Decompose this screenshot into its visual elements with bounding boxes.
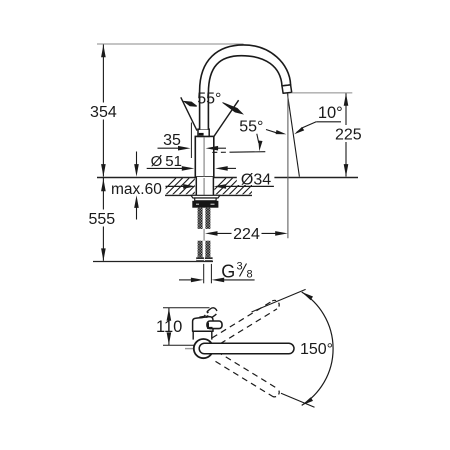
swivel dashed arm lower (217, 351, 277, 388)
body section through countertop (34mm) (196, 177, 213, 195)
extension line for 35 (190, 123, 192, 159)
plan lever knob curl (205, 306, 218, 319)
body centerline visible inside (203, 138, 205, 177)
spout outlet cap (mousseur) (282, 85, 292, 93)
plan lever dashed shaft (203, 312, 209, 318)
svg-text:110: 110 (156, 318, 182, 336)
dimension max.60 (counter thickness) (136, 152, 138, 166)
reference line at spout outlet level (292, 92, 353, 94)
svg-text:555: 555 (88, 211, 115, 228)
spout outlet axis vertical line (287, 94, 289, 239)
swivel boundary line lower (281, 393, 315, 407)
svg-text:Ø 51: Ø 51 (151, 153, 182, 170)
bottom reference line (hose ends) (93, 261, 213, 263)
faucet body centerline (203, 132, 205, 195)
spout tube (high C-arc) (200, 45, 291, 129)
dimension 224 (spout reach) (205, 231, 218, 236)
swivel arc 150° (302, 292, 333, 405)
countertop top surface line (97, 177, 358, 179)
supply hose right (lower segment) (205, 241, 210, 258)
centerline in hose break gap (203, 229, 205, 241)
svg-text:G: G (221, 261, 235, 281)
plan side stub (207, 321, 222, 329)
plan neck lines (192, 331, 194, 339)
top reference line (faucet max height) (97, 43, 244, 45)
label G 3/8 (thread size) (203, 264, 205, 283)
lever open position line (214, 100, 239, 136)
svg-text:10°: 10° (318, 104, 343, 122)
plan centerline (185, 348, 199, 350)
dashed reference line at body (212, 151, 231, 153)
svg-text:3: 3 (237, 261, 243, 273)
faucet body (195, 136, 214, 177)
collar / cartridge cap (198, 129, 209, 136)
hose end fitting left (196, 257, 204, 262)
dimension 555 (counter to hose end) (102, 178, 104, 210)
lever closed position line (181, 97, 197, 130)
block top dark ticks (200, 316, 204, 319)
hose end fitting right (205, 257, 213, 262)
svg-text:354: 354 (90, 104, 117, 121)
svg-text:224: 224 (233, 226, 260, 243)
mounting nut (192, 201, 218, 208)
plan view: extension line at lever tip (163, 307, 210, 309)
svg-text:8: 8 (247, 268, 253, 280)
dimension 225 (outlet height) (345, 93, 347, 125)
countertop slab bottom line (165, 194, 252, 196)
svg-text:Ø34: Ø34 (241, 171, 271, 188)
mounting washer (191, 195, 220, 198)
plan spout arm capsule (199, 343, 294, 354)
svg-text:max.60: max.60 (111, 181, 162, 198)
supply hose left (lower segment) (198, 241, 203, 258)
swivel dashed arm upper (212, 301, 272, 338)
lever hinge dark detail (199, 133, 204, 136)
plan view: extension line at spout arm (163, 344, 194, 346)
supply hose right (upper segment) (205, 208, 210, 229)
svg-text:55°: 55° (197, 91, 221, 108)
dimension Ø34 (body dia at counter) (166, 185, 187, 187)
dimension 110 (168, 308, 170, 318)
plan body block (193, 317, 213, 332)
svg-text:150°: 150° (300, 341, 333, 358)
supply hose left (upper segment) (198, 208, 203, 229)
svg-text:55°: 55° (239, 119, 263, 136)
plan body circle (194, 339, 213, 358)
water stream line (10° tilt) (287, 94, 299, 177)
svg-text:225: 225 (335, 126, 362, 143)
stub dark detail (208, 323, 213, 328)
dimension 354 (height above counter) (102, 45, 104, 103)
swivel boundary line upper (252, 289, 306, 312)
rubber gasket (195, 198, 216, 201)
